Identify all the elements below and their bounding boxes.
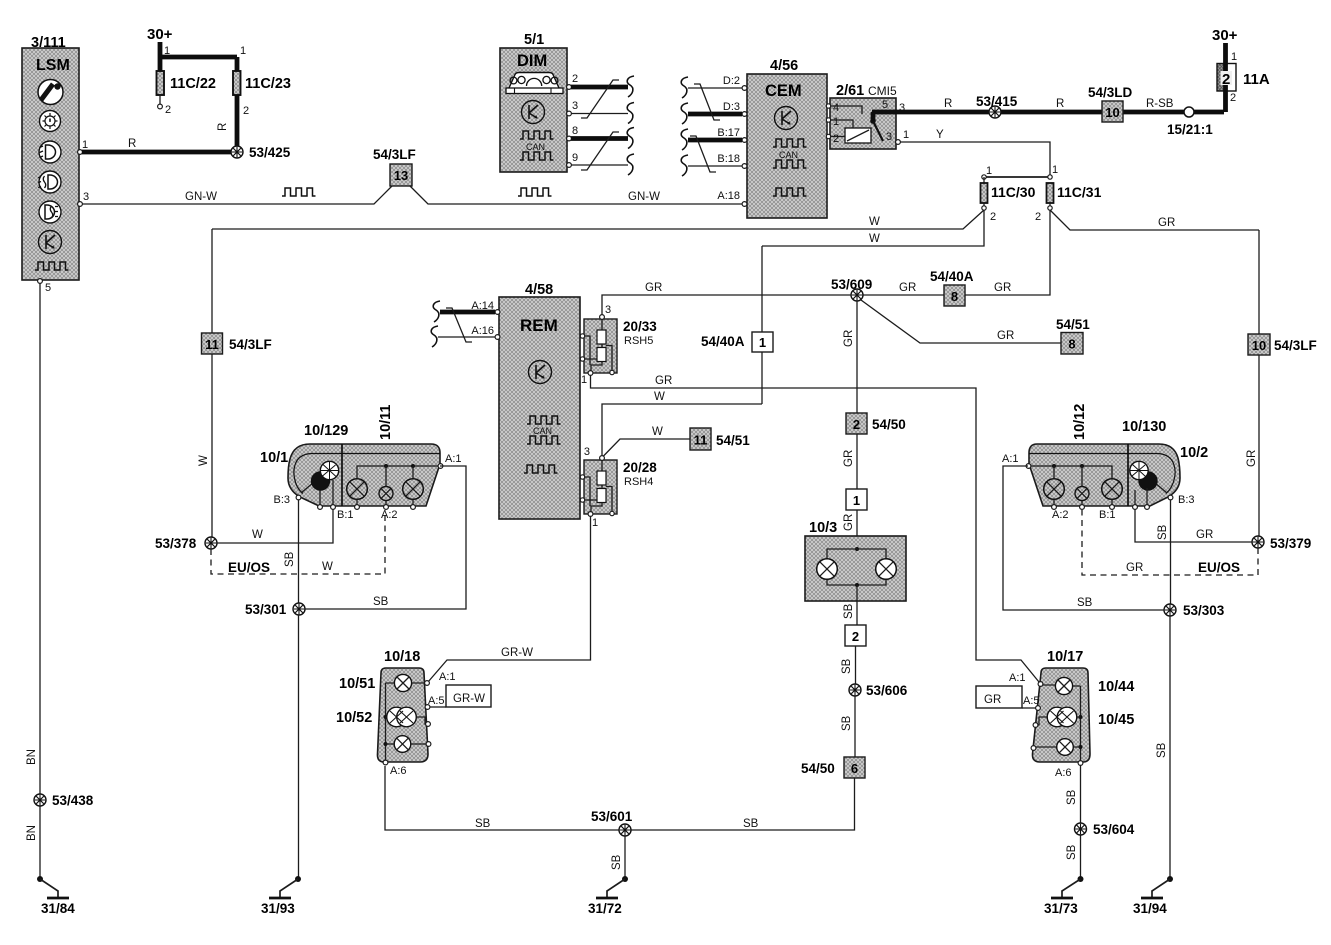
fuse 11C/31 (1035, 183, 1102, 223)
wire to REM pin A:14 (CAN) (440, 310, 495, 315)
wire from DIM pin 3 (CAN) (571, 113, 628, 115)
svg-text:CAN: CAN (779, 150, 798, 160)
svg-text:20/28: 20/28 (623, 460, 657, 475)
svg-text:GR: GR (1126, 562, 1143, 574)
splice 53/425 (231, 145, 291, 160)
svg-text:R: R (217, 123, 229, 131)
coil end symbol DIM pin 3 (627, 103, 634, 124)
svg-text:1: 1 (986, 165, 992, 177)
svg-text:GR: GR (843, 514, 855, 531)
svg-text:54/50: 54/50 (872, 417, 906, 432)
svg-text:SB: SB (1066, 789, 1078, 805)
svg-text:3: 3 (605, 304, 611, 316)
CEM pin A:18 (717, 190, 747, 206)
DIM pin 3 (567, 100, 579, 116)
wire W from 20/28 pin 3 up to connector 1 54/40A (602, 391, 762, 456)
svg-text:2: 2 (1035, 211, 1041, 223)
wire from DIM pin 2 (CAN) (571, 85, 628, 90)
svg-text:W: W (869, 233, 880, 245)
svg-text:EU/OS: EU/OS (1198, 560, 1240, 575)
wire GR branch from splice 53/609 to connector 8 54/51 (861, 300, 1061, 343)
CEM pin B:17 (717, 127, 747, 142)
connector 11 54/3LF (202, 333, 272, 354)
wire W from fuse 11C/30 to connector 1 54/40A (lower run) (762, 210, 984, 246)
svg-text:11C/30: 11C/30 (991, 184, 1036, 200)
left headlamp assembly 10/1 10/129 10/11 (260, 405, 440, 507)
svg-text:53/379: 53/379 (1270, 536, 1311, 551)
svg-text:3: 3 (584, 446, 590, 458)
ground 31/94 (1133, 876, 1173, 916)
DIM pin 2 (567, 73, 579, 89)
svg-text:A:5: A:5 (1023, 695, 1040, 707)
svg-text:13: 13 (394, 168, 408, 183)
wire W branch from 20/28 pin 3 to connector 11 54/51 (604, 426, 691, 456)
svg-text:10: 10 (1252, 338, 1266, 353)
dashed EU/OS link right (1082, 510, 1258, 575)
svg-text:D:2: D:2 (723, 75, 740, 87)
left lamp B:1 (10/11) (347, 479, 368, 505)
svg-text:8: 8 (951, 289, 958, 304)
resistor module 20/28 RSH4 (584, 460, 657, 514)
wire W from fuse 11C/30 to connector 11 54/3LF (upper run) (212, 210, 984, 229)
svg-text:SB: SB (743, 818, 759, 830)
svg-text:B:3: B:3 (1178, 494, 1195, 506)
front fog/position lamp left 10/18 (336, 649, 428, 762)
svg-text:W: W (322, 561, 333, 573)
right assembly pins (1002, 453, 1195, 521)
wire from DIM pin 9 (CAN) (571, 164, 628, 166)
square wave symbol on GN-W wire (282, 188, 316, 196)
svg-text:SB: SB (841, 715, 853, 731)
svg-text:10/2: 10/2 (1180, 445, 1208, 461)
relay 2/61 CMI5 (830, 83, 897, 149)
DIM diagnostic K icon (522, 101, 545, 124)
splice 53/601 (591, 809, 633, 836)
coil end symbol CEM D:3 (681, 103, 688, 124)
svg-text:4: 4 (833, 102, 839, 114)
wire BN from LSM pin 5 to ground 31/84 (26, 283, 40, 877)
connector 2 54/50 (846, 413, 906, 434)
wire GR from splice 53/609 to 20/33 riser (602, 282, 851, 317)
power feed 30+ top left (147, 26, 246, 57)
svg-text:B:3: B:3 (273, 494, 290, 506)
svg-text:A:2: A:2 (1052, 509, 1069, 521)
svg-text:CEM: CEM (765, 82, 802, 100)
CEM pin D:2 (723, 75, 747, 90)
coil end symbol REM A:16 (431, 326, 438, 347)
wire GR from 20/33 pin 1 toward 10/17 (591, 375, 1040, 682)
right headlamp assembly 10/12 10/130 10/2 (1029, 404, 1208, 506)
svg-text:R-SB: R-SB (1146, 98, 1174, 110)
svg-text:10/12: 10/12 (1072, 404, 1088, 440)
svg-text:B:18: B:18 (717, 153, 740, 165)
square wave symbol on GN-W wire right (518, 188, 552, 196)
svg-text:A:5: A:5 (428, 695, 445, 707)
connector 13 54/3LF (373, 147, 416, 186)
wire SB from splice 53/301 to ground 31/93 (298, 615, 300, 877)
ground 31/73 (1044, 876, 1084, 916)
left assembly pins (273, 453, 461, 521)
svg-text:1: 1 (240, 45, 246, 57)
splice 53/606 (849, 683, 908, 698)
LSM headlamp icon (39, 141, 61, 163)
svg-text:20/33: 20/33 (623, 319, 657, 334)
fuse 11A (1217, 64, 1270, 113)
20/28 internal resistors (580, 460, 614, 516)
wire GR from right lamp to splice 53/379 (1135, 509, 1252, 542)
svg-text:B:1: B:1 (337, 509, 354, 521)
svg-text:EU/OS: EU/OS (228, 560, 270, 575)
svg-text:LSM: LSM (36, 57, 70, 74)
svg-text:1: 1 (592, 517, 598, 529)
svg-text:10/129: 10/129 (304, 423, 348, 439)
left assembly internal bus to A:1 (357, 464, 438, 486)
svg-text:10/45: 10/45 (1098, 712, 1134, 728)
fuse link bar 11C/30-11C/31 (982, 164, 1058, 179)
wire to CEM pin D:3 (CAN) (688, 112, 742, 117)
svg-text:54/3LF: 54/3LF (373, 147, 416, 162)
twisted pair symbol DIM pins 8-9 (581, 132, 619, 170)
svg-text:2: 2 (243, 105, 249, 117)
svg-text:11C/23: 11C/23 (245, 76, 291, 92)
LSM panel illumination icon (40, 111, 61, 132)
svg-text:5: 5 (45, 282, 51, 294)
REM pin A:16 (471, 325, 500, 339)
svg-text:B:1: B:1 (1099, 509, 1116, 521)
DIM instrument cluster icon (506, 73, 563, 94)
splice 53/438 (34, 793, 94, 808)
svg-text:2: 2 (833, 133, 839, 145)
svg-text:GR: GR (655, 375, 672, 387)
wire R from relay 2/61 to fuse 11A (main feed) (872, 98, 1224, 112)
svg-text:30+: 30+ (147, 26, 173, 43)
svg-text:10/130: 10/130 (1122, 419, 1166, 435)
connector 10 54/3LF right (1248, 334, 1317, 355)
relay 2/61 output pin 1 (896, 129, 910, 144)
coil end symbol CEM D:2 (681, 77, 688, 98)
svg-text:10/52: 10/52 (336, 710, 372, 726)
relay 2/61 link pins to CEM (826, 99, 892, 145)
coil end symbol CEM B:17 (681, 129, 688, 150)
wire GR from fuse 11C/31 to right column (1050, 210, 1259, 230)
connector 10 54/3LD (1088, 85, 1133, 122)
LSM pin 5 (38, 279, 52, 294)
ground 31/84 (37, 876, 75, 916)
rear electronic module 4/58 REM (499, 282, 580, 519)
splice 53/604 (1075, 822, 1135, 837)
svg-text:1: 1 (82, 139, 88, 151)
left lamp A:2 small (379, 487, 393, 506)
svg-text:10/51: 10/51 (339, 676, 375, 692)
svg-text:RSH4: RSH4 (624, 476, 653, 488)
wire to CEM pin D:2 (CAN) (688, 87, 742, 89)
svg-text:2: 2 (990, 211, 996, 223)
svg-text:53/301: 53/301 (245, 602, 287, 617)
svg-text:A:1: A:1 (1009, 672, 1026, 684)
svg-text:CMI5: CMI5 (868, 84, 897, 98)
20/33 internal resistors (580, 319, 614, 375)
svg-text:10/18: 10/18 (384, 649, 420, 665)
svg-text:B:17: B:17 (717, 127, 740, 139)
control module 3/111 LSM (light switch module) (22, 35, 79, 280)
10/17 lamp 10/44 (1043, 677, 1081, 694)
svg-text:6: 6 (851, 761, 858, 776)
connector 8 54/40A (899, 269, 1011, 306)
DIM pin 8 (567, 125, 579, 141)
svg-text:2: 2 (572, 73, 578, 85)
svg-text:3: 3 (886, 131, 892, 143)
wire GR from connector 10 to splice 53/379 (1246, 355, 1259, 537)
wire to CEM pin B:17 (CAN) (688, 138, 742, 143)
splice 53/379 (1252, 536, 1311, 551)
left turn signal icon 10/129 (301, 461, 339, 505)
svg-text:3/111: 3/111 (31, 35, 66, 51)
svg-text:SB: SB (1157, 524, 1169, 540)
10/18 pins (383, 671, 455, 777)
GR-W destination box at 10/18 A:5 (430, 685, 491, 707)
wire R from fuse 11C/23 to splice 53/425 (217, 95, 237, 150)
REM pin A:14 (471, 300, 500, 314)
10/17 lamp 10/45 double (1037, 707, 1081, 727)
relay 2/61 coil (831, 120, 872, 143)
right turn signal icon 10/130 (1130, 461, 1167, 505)
svg-text:11: 11 (205, 337, 219, 352)
svg-text:SB: SB (843, 603, 855, 619)
connector 1 white (846, 489, 867, 510)
splice 53/378 (155, 536, 217, 551)
svg-text:10/1: 10/1 (260, 450, 288, 466)
svg-text:11C/31: 11C/31 (1057, 184, 1102, 200)
svg-text:2: 2 (852, 629, 859, 644)
LSM pin 1 (78, 139, 89, 154)
svg-text:GR: GR (843, 330, 855, 347)
svg-text:31/93: 31/93 (261, 901, 295, 916)
splice 53/301 (245, 602, 305, 617)
svg-text:A:1: A:1 (445, 453, 462, 465)
svg-text:1: 1 (853, 493, 860, 508)
svg-text:2: 2 (1230, 92, 1236, 104)
10/18 internal bus (384, 683, 388, 760)
connector 6 54/50 (801, 757, 865, 778)
svg-text:A:18: A:18 (717, 190, 740, 202)
20/33 pin 1 (581, 371, 593, 386)
wire GR into lamp 10/3 (843, 510, 857, 549)
svg-text:A:16: A:16 (471, 325, 494, 337)
svg-text:3: 3 (572, 100, 578, 112)
REM diagnostic K icon (529, 361, 552, 384)
wire SB from splice 53/303 to ground 31/94 (1156, 616, 1170, 877)
wire SB from right A:1 to splice 53/303 (1003, 466, 1164, 610)
20/33 pin 3 (600, 304, 612, 319)
connector 11 54/51 (690, 428, 750, 450)
relay 2/61 switch (831, 106, 884, 141)
svg-text:3: 3 (83, 191, 89, 203)
svg-text:54/50: 54/50 (801, 761, 835, 776)
wire GR-W from 20/28 pin 1 to 10/18 A:1 (428, 516, 591, 682)
svg-text:1: 1 (164, 45, 170, 57)
svg-text:W: W (654, 391, 665, 403)
svg-text:SB: SB (841, 658, 853, 674)
svg-text:GR: GR (645, 282, 662, 294)
svg-text:W: W (252, 529, 263, 541)
svg-text:1: 1 (833, 116, 839, 128)
10/17 lamp lower (1036, 739, 1081, 756)
svg-text:1: 1 (1231, 51, 1237, 63)
wire GR between connectors (843, 434, 857, 489)
10/18 lamp 10/52 double (386, 707, 428, 727)
wire GR from fuse 11C/31 down to splice 53/609 run (862, 210, 1050, 295)
GR destination box at 10/17 A:5 (976, 686, 1036, 708)
svg-text:53/425: 53/425 (249, 145, 291, 160)
svg-text:10/44: 10/44 (1098, 679, 1134, 695)
svg-text:31/84: 31/84 (41, 901, 75, 916)
svg-text:DIM: DIM (517, 52, 547, 70)
svg-text:54/3LF: 54/3LF (1274, 338, 1317, 353)
coil end symbol CEM B:18 (681, 155, 688, 176)
wire GN-W from connector 13 to CEM A:18 (410, 186, 742, 204)
svg-text:D:3: D:3 (723, 101, 740, 113)
coil end symbol DIM pin 2 (627, 76, 634, 97)
connector 2 white (845, 625, 866, 646)
wire GR middle column splice 53/609 down to 10/3 (843, 301, 857, 413)
fuse 11C/22 (157, 57, 216, 116)
svg-text:11A: 11A (1243, 71, 1270, 88)
svg-text:5/1: 5/1 (524, 32, 544, 48)
svg-text:REM: REM (520, 316, 558, 335)
svg-text:GR: GR (843, 450, 855, 467)
svg-text:GN-W: GN-W (628, 191, 660, 203)
svg-text:1: 1 (1052, 164, 1058, 176)
svg-text:SB: SB (1066, 844, 1078, 860)
svg-text:GR: GR (1246, 450, 1258, 467)
20/28 pin 3 (584, 446, 605, 460)
REM square wave icon (524, 465, 558, 473)
svg-text:GR: GR (997, 330, 1014, 342)
right lamp A:2 small (1075, 487, 1089, 506)
connector 8 54/51 (1056, 317, 1090, 354)
svg-text:54/3LD: 54/3LD (1088, 85, 1133, 100)
wire SB from splice 53/601 to ground 31/72 (611, 836, 625, 877)
DIM CAN icon (520, 131, 554, 160)
svg-text:2: 2 (1222, 71, 1230, 88)
svg-text:8: 8 (572, 125, 578, 137)
wire SB bottom run from connector 6 to 10/18 A:6 (385, 766, 855, 830)
svg-text:53/601: 53/601 (591, 809, 633, 824)
right lamp outer (1044, 479, 1065, 505)
splice 53/303 (1164, 603, 1225, 618)
connector 1 54/40A (701, 332, 773, 352)
terminal 15/21:1 (1167, 107, 1213, 137)
wire W left column from upper run down to splice 53/378 (198, 229, 212, 538)
resistor module 20/33 RSH5 (584, 319, 657, 373)
svg-text:4/58: 4/58 (525, 282, 553, 298)
ground 31/93 (261, 876, 301, 916)
svg-text:A:6: A:6 (1055, 767, 1072, 779)
coil end symbol DIM pin 8 (627, 128, 634, 149)
svg-text:A:6: A:6 (390, 765, 407, 777)
svg-text:8: 8 (1068, 337, 1075, 352)
svg-text:10/17: 10/17 (1047, 649, 1083, 665)
10/17 internal bus (1079, 686, 1083, 760)
CEM square wave icon (773, 188, 807, 196)
left lamp outer (403, 479, 424, 505)
svg-text:BN: BN (26, 825, 38, 841)
svg-text:R: R (128, 138, 136, 150)
20/28 pin 1 (588, 512, 598, 529)
10/17 pins (1009, 672, 1083, 779)
svg-text:A:2: A:2 (381, 509, 398, 521)
wire GR right column down to connector 10 54/3LF (1258, 230, 1260, 334)
svg-text:RSH5: RSH5 (624, 335, 653, 347)
twisted pair symbol CEM D:2-D:3 (694, 84, 720, 120)
CEM pin D:3 (723, 101, 747, 116)
svg-text:A:1: A:1 (439, 671, 456, 683)
svg-text:54/51: 54/51 (716, 433, 750, 448)
svg-text:R: R (944, 98, 952, 110)
twisted pair symbol DIM pins 2-3 (581, 80, 619, 118)
CEM diagnostic K icon (775, 107, 798, 130)
front fog/position lamp right 10/17 (1032, 649, 1134, 762)
right lamp B:1 (10/12) (1102, 479, 1123, 505)
svg-text:10/11: 10/11 (378, 405, 394, 441)
dashed EU/OS link left (211, 510, 385, 575)
license plate lamp 10/3 (805, 520, 906, 601)
svg-text:2: 2 (853, 417, 860, 432)
wire Y from relay 2/61 pin 1 to fuse 11C/31 (900, 129, 1050, 175)
svg-text:53/303: 53/303 (1183, 603, 1225, 618)
svg-text:2/61: 2/61 (836, 83, 864, 99)
svg-text:9: 9 (572, 152, 578, 164)
svg-text:SB: SB (475, 818, 491, 830)
wire SB to splice 53/606 (841, 646, 856, 685)
wire SB from left B:3 down to splice 53/301 (284, 500, 299, 604)
CEM CAN icon (773, 139, 807, 168)
svg-text:1: 1 (903, 129, 909, 141)
svg-text:GR: GR (994, 282, 1011, 294)
LSM rear fog lamp icon (39, 201, 61, 223)
10/3 left bulb (817, 559, 838, 580)
svg-text:53/604: 53/604 (1093, 822, 1135, 837)
svg-text:11: 11 (694, 433, 708, 448)
10/18 lamp lower (386, 736, 427, 753)
svg-text:GR-W: GR-W (501, 647, 533, 659)
wire SB from left A:1 to splice 53/301 (305, 466, 466, 609)
twisted pair symbol CEM B:17-B:18 (690, 136, 716, 172)
wire W from splice 53/378 to left lamp B:1 (217, 509, 333, 543)
REM CAN icon (527, 416, 561, 444)
DIM pin 9 (567, 152, 579, 167)
LSM square wave icon (35, 262, 69, 270)
fuse 11C/30 (981, 177, 1036, 223)
wire to REM pin A:16 (CAN) (438, 336, 495, 338)
wire SB from 10/3 down (843, 601, 857, 625)
svg-text:R: R (1056, 98, 1064, 110)
ground 31/72 (588, 876, 628, 916)
svg-text:54/40A: 54/40A (701, 334, 745, 349)
svg-text:Y: Y (936, 129, 944, 141)
svg-text:10: 10 (1105, 105, 1119, 120)
coil end symbol REM A:14 (433, 301, 440, 322)
svg-text:GR: GR (1158, 217, 1175, 229)
svg-text:GR: GR (1196, 529, 1213, 541)
svg-text:53/415: 53/415 (976, 94, 1018, 109)
svg-text:53/606: 53/606 (866, 683, 908, 698)
svg-text:1: 1 (759, 335, 766, 350)
svg-text:SB: SB (373, 596, 389, 608)
instrument module 5/1 DIM (500, 32, 567, 172)
svg-text:BN: BN (26, 749, 38, 765)
svg-text:53/438: 53/438 (52, 793, 94, 808)
